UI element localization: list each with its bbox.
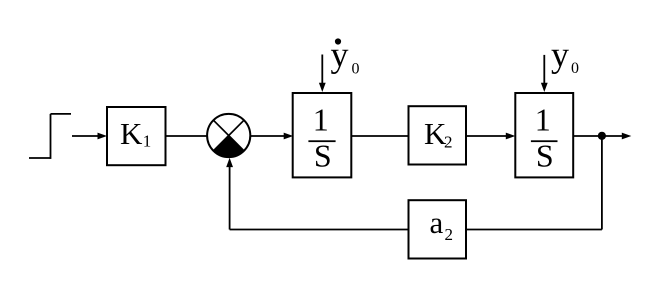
block K1 xyxy=(107,107,166,165)
fraction bar xyxy=(308,140,335,142)
summing junction xyxy=(207,114,250,157)
label ydot0 xyxy=(335,38,341,44)
input ydot0 arrow xyxy=(321,55,323,85)
svg-text:0: 0 xyxy=(352,60,360,77)
output arrow xyxy=(602,135,623,137)
block integrator 1 (1/S) xyxy=(293,93,352,177)
summing junction filled sector xyxy=(213,136,244,158)
wire: integrator 2 to output node xyxy=(573,135,602,137)
svg-text:y: y xyxy=(551,35,569,75)
svg-text:2: 2 xyxy=(444,133,453,152)
step input symbol xyxy=(29,157,51,159)
node: output takeoff point xyxy=(598,132,606,140)
wire: input arrow into K1 xyxy=(72,135,99,137)
block integrator 2 (1/S) xyxy=(515,93,573,177)
step input vertical xyxy=(50,114,52,159)
svg-text:K: K xyxy=(120,116,143,151)
input y0 arrow xyxy=(543,55,545,84)
summing junction cross xyxy=(213,120,244,151)
wire: feedback up into summing junction xyxy=(229,166,231,230)
wire: integrator 1 to K2 xyxy=(351,135,408,137)
wire: K2 to integrator 2 xyxy=(466,135,507,137)
wire: summing junction to integrator 1 xyxy=(251,135,286,137)
svg-text:0: 0 xyxy=(571,60,579,77)
wire: feedback left horizontal xyxy=(230,229,409,231)
svg-text:1: 1 xyxy=(535,102,551,138)
svg-text:1: 1 xyxy=(313,102,329,138)
svg-text:2: 2 xyxy=(445,225,454,244)
svg-text:1: 1 xyxy=(143,132,152,151)
wire: K1 to summing junction xyxy=(166,135,208,137)
wire: node down xyxy=(601,136,603,230)
wire: feedback right horizontal xyxy=(466,229,602,231)
svg-text:a: a xyxy=(430,205,444,240)
svg-text:S: S xyxy=(536,138,554,174)
svg-text:y: y xyxy=(331,35,349,75)
block K2 xyxy=(409,106,467,164)
block a2 xyxy=(409,200,467,258)
svg-text:S: S xyxy=(314,138,332,174)
fraction bar xyxy=(531,140,558,142)
step input top xyxy=(51,113,72,115)
